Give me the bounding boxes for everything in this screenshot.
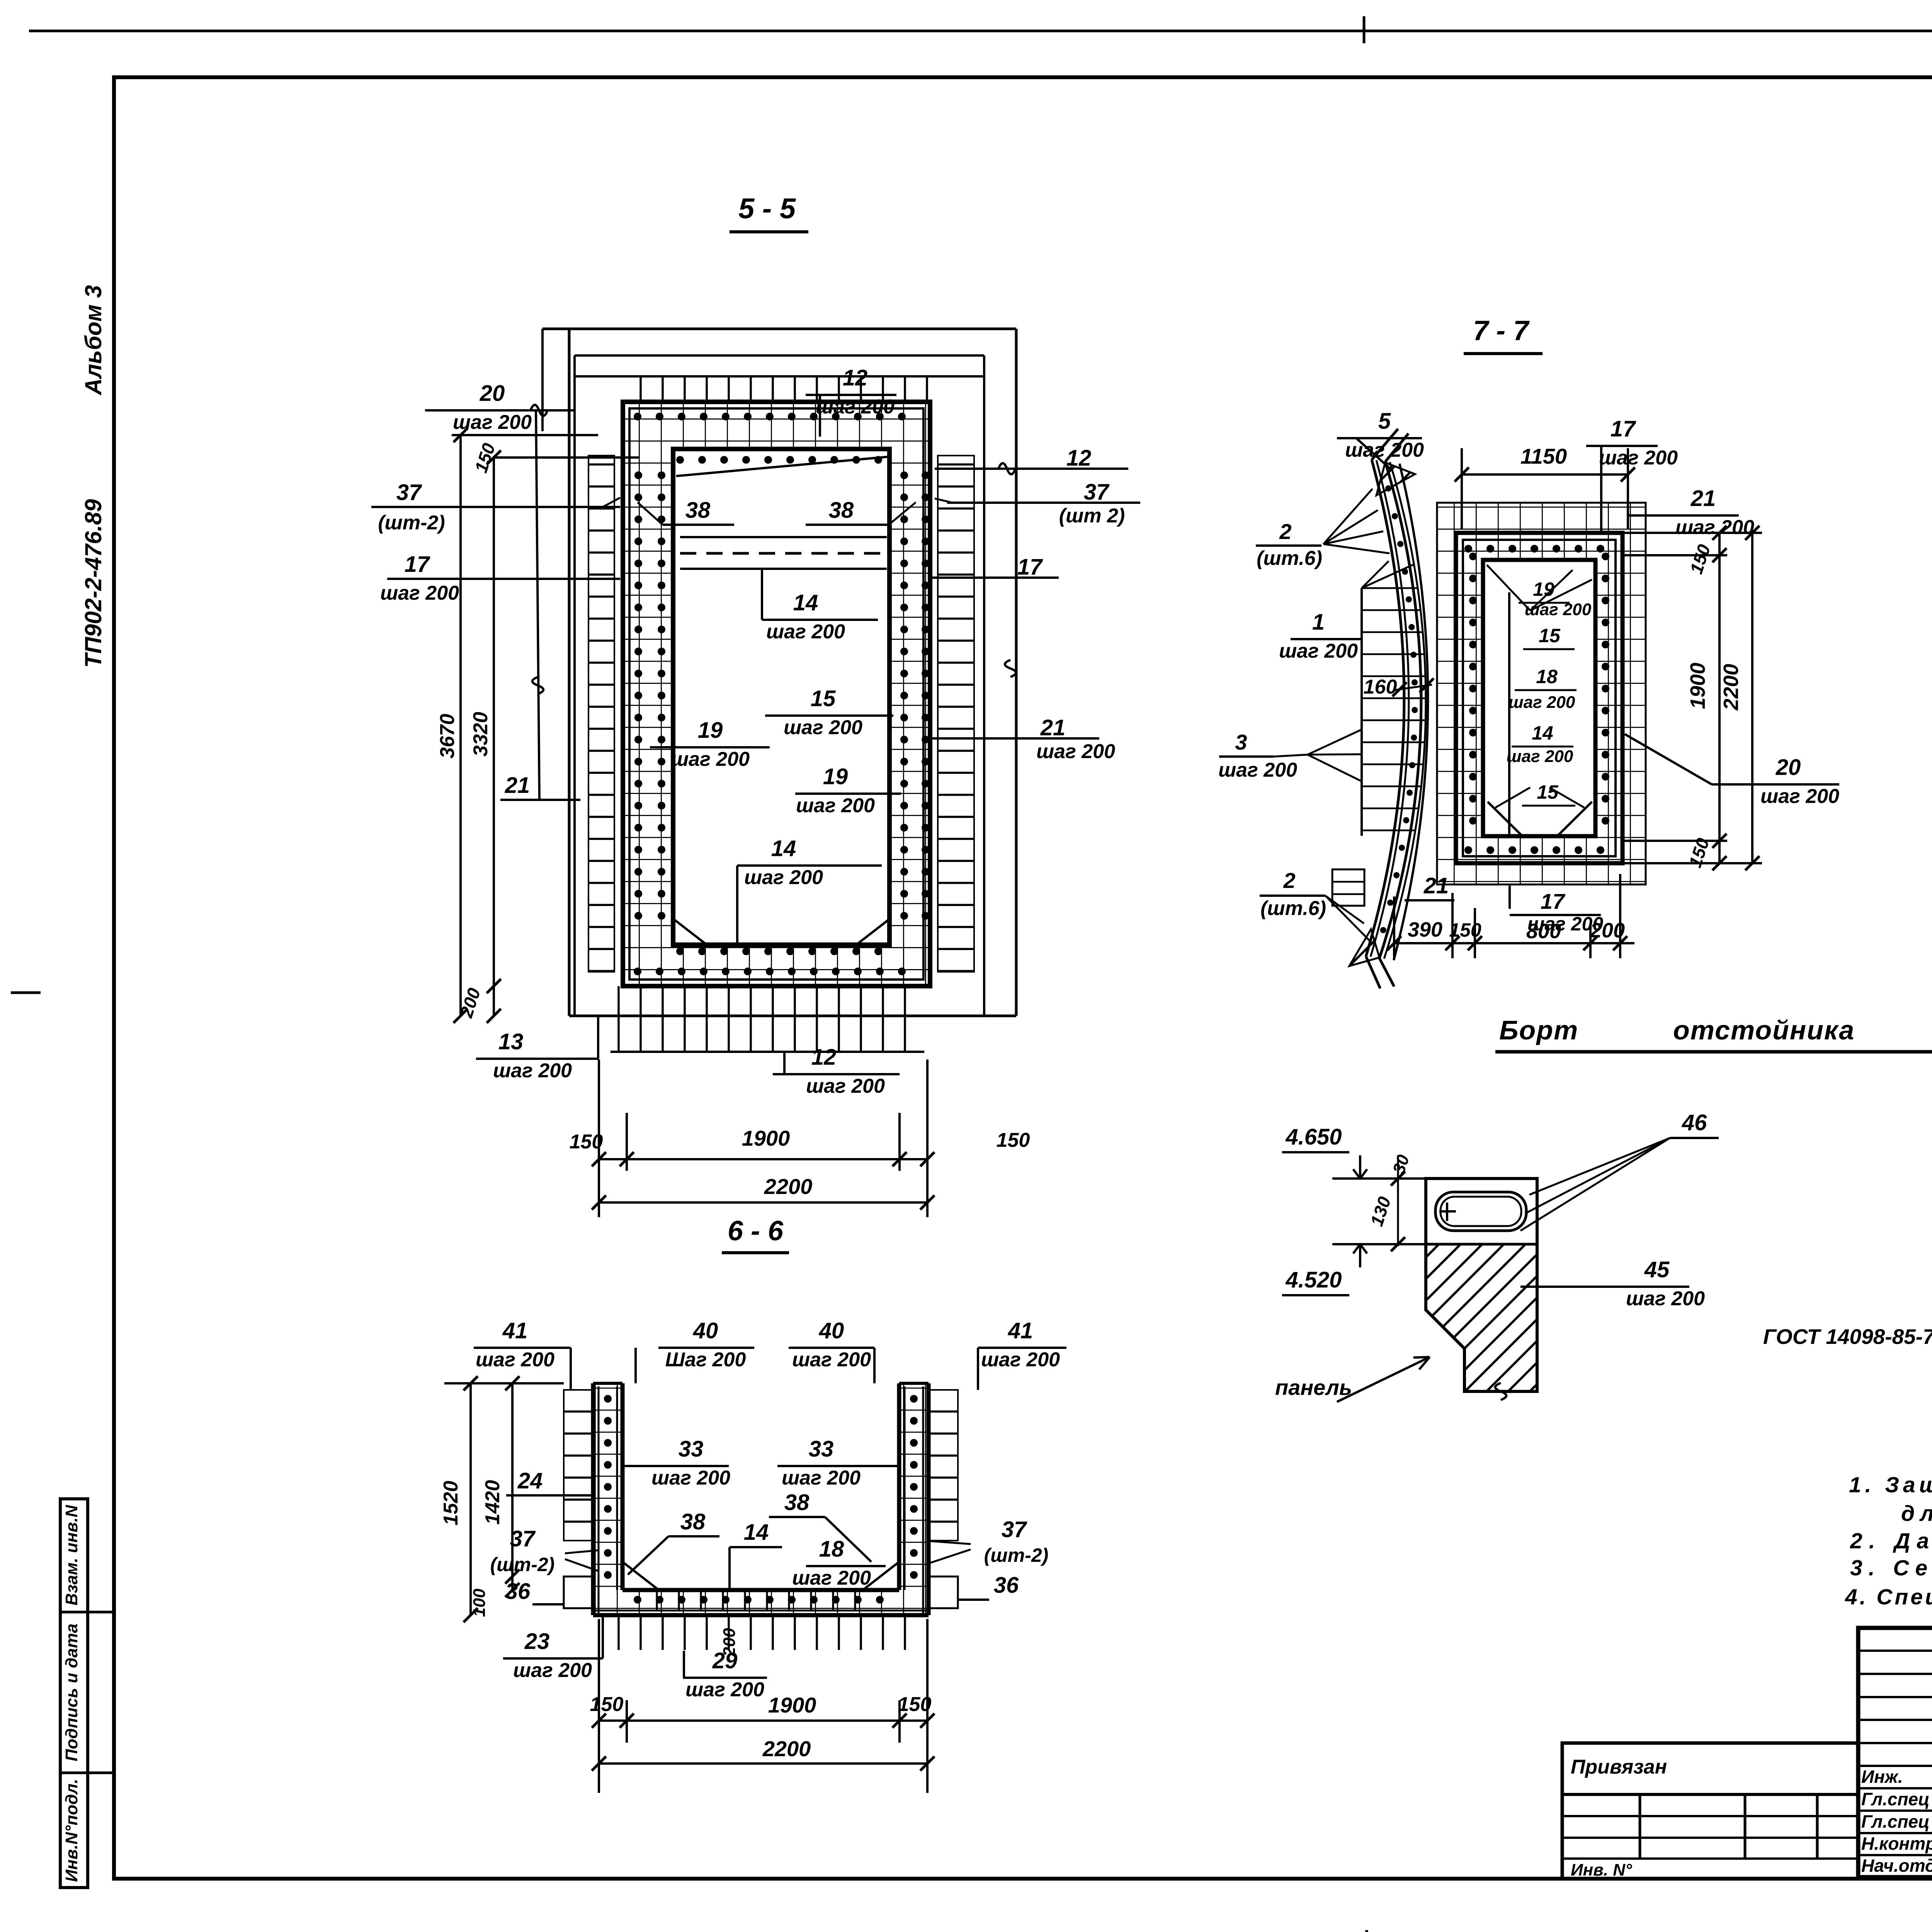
svg-text:23: 23 xyxy=(524,1629,550,1654)
svg-text:21: 21 xyxy=(1423,873,1449,898)
svg-text:15: 15 xyxy=(1537,781,1559,803)
svg-text:шаг 200: шаг 200 xyxy=(782,1467,861,1489)
svg-text:17: 17 xyxy=(1017,554,1043,580)
svg-text:шаг 200: шаг 200 xyxy=(796,794,875,817)
svg-text:12: 12 xyxy=(811,1045,837,1070)
svg-text:Подпись и дата: Подпись и дата xyxy=(62,1624,81,1762)
svg-text:38: 38 xyxy=(829,498,854,523)
svg-text:33: 33 xyxy=(809,1437,834,1462)
svg-text:панель: панель xyxy=(1275,1375,1352,1400)
svg-text:Взам. инв.N: Взам. инв.N xyxy=(62,1505,81,1605)
svg-text:2200: 2200 xyxy=(764,1174,813,1199)
svg-text:шаг 200: шаг 200 xyxy=(476,1349,554,1371)
svg-text:33: 33 xyxy=(679,1437,704,1462)
svg-text:17: 17 xyxy=(1611,417,1636,442)
svg-text:2: 2 xyxy=(1279,519,1291,544)
svg-text:1: 1 xyxy=(1312,610,1325,635)
svg-text:Нач.отд: Нач.отд xyxy=(1861,1855,1932,1876)
svg-text:шаг 200: шаг 200 xyxy=(685,1679,764,1701)
svg-text:45: 45 xyxy=(1644,1257,1670,1282)
svg-text:для прочей арматуры — 20 мм.: для прочей арматуры — 20 мм. xyxy=(1901,1501,1932,1526)
svg-text:2200: 2200 xyxy=(1719,664,1743,711)
svg-text:15: 15 xyxy=(1539,625,1561,646)
svg-text:шаг 200: шаг 200 xyxy=(744,866,823,889)
svg-text:Инв.N°подл.: Инв.N°подл. xyxy=(62,1779,81,1882)
svg-text:46: 46 xyxy=(1682,1110,1707,1135)
svg-text:12: 12 xyxy=(843,366,868,391)
svg-text:(шт.6): (шт.6) xyxy=(1260,897,1326,920)
svg-text:13: 13 xyxy=(498,1029,524,1054)
svg-text:шаг 200: шаг 200 xyxy=(1509,693,1575,712)
svg-text:шаг 200: шаг 200 xyxy=(792,1349,871,1371)
svg-text:38: 38 xyxy=(784,1490,810,1515)
svg-text:24: 24 xyxy=(517,1468,543,1493)
svg-text:Привязан: Привязан xyxy=(1571,1756,1667,1778)
svg-text:шаг 200: шаг 200 xyxy=(816,396,895,418)
svg-text:Гл.спец: Гл.спец xyxy=(1861,1789,1930,1809)
svg-text:15: 15 xyxy=(811,686,836,711)
svg-text:40: 40 xyxy=(693,1318,718,1344)
svg-text:150: 150 xyxy=(1686,542,1714,576)
svg-text:5: 5 xyxy=(1378,409,1391,434)
svg-text:(шт-2): (шт-2) xyxy=(378,512,445,534)
svg-text:14: 14 xyxy=(793,590,818,616)
svg-text:1. Защитный слой бетона для ни: 1. Защитный слой бетона для нижней армат… xyxy=(1849,1473,1932,1497)
svg-text:38: 38 xyxy=(685,498,711,523)
svg-text:шаг 200: шаг 200 xyxy=(981,1349,1060,1371)
svg-text:шаг 200: шаг 200 xyxy=(1345,439,1424,461)
svg-text:41: 41 xyxy=(502,1318,528,1344)
svg-text:17: 17 xyxy=(1541,889,1566,913)
svg-text:19: 19 xyxy=(1533,578,1554,600)
svg-text:шаг 200: шаг 200 xyxy=(1279,640,1358,662)
svg-text:2200: 2200 xyxy=(762,1736,811,1761)
svg-text:3. Сечения снесены с листа 13.: 3. Сечения снесены с листа 13. xyxy=(1850,1556,1932,1580)
svg-text:шаг 200: шаг 200 xyxy=(766,621,845,643)
svg-text:36: 36 xyxy=(994,1573,1019,1598)
svg-text:3670: 3670 xyxy=(436,714,459,759)
svg-text:шаг 200: шаг 200 xyxy=(671,748,750,770)
svg-text:18: 18 xyxy=(819,1537,844,1562)
svg-text:1420: 1420 xyxy=(481,1480,504,1525)
svg-text:отстойника: отстойника xyxy=(1673,1015,1855,1045)
svg-text:21: 21 xyxy=(1040,715,1066,740)
svg-text:41: 41 xyxy=(1008,1318,1033,1344)
svg-text:1900: 1900 xyxy=(742,1126,790,1150)
svg-text:20: 20 xyxy=(480,381,505,406)
svg-text:37: 37 xyxy=(510,1526,536,1551)
svg-text:(шт-2): (шт-2) xyxy=(490,1554,555,1575)
svg-text:100: 100 xyxy=(470,1588,489,1617)
svg-text:шаг 200: шаг 200 xyxy=(493,1060,572,1082)
svg-text:4.520: 4.520 xyxy=(1285,1267,1342,1293)
svg-text:30: 30 xyxy=(1389,1152,1413,1176)
svg-text:200: 200 xyxy=(1590,919,1625,942)
svg-text:1900: 1900 xyxy=(1686,663,1709,709)
svg-text:Инв. N°: Инв. N° xyxy=(1571,1861,1632,1879)
svg-text:19: 19 xyxy=(698,718,723,743)
svg-text:20: 20 xyxy=(1776,755,1801,780)
svg-text:шаг 200: шаг 200 xyxy=(784,716,862,739)
svg-text:шаг 200: шаг 200 xyxy=(1218,759,1297,781)
svg-text:14: 14 xyxy=(744,1520,769,1545)
svg-text:130: 130 xyxy=(1366,1194,1395,1228)
svg-text:3: 3 xyxy=(1235,730,1247,754)
svg-text:(шт 2): (шт 2) xyxy=(1059,505,1125,527)
svg-text:Альбом 3: Альбом 3 xyxy=(80,285,106,396)
svg-text:Инж.: Инж. xyxy=(1861,1767,1903,1787)
svg-text:17: 17 xyxy=(405,552,430,577)
svg-text:160: 160 xyxy=(1364,676,1397,698)
svg-text:150: 150 xyxy=(570,1131,603,1153)
svg-text:Шаг 200: Шаг 200 xyxy=(665,1349,746,1371)
svg-text:21: 21 xyxy=(1690,486,1716,511)
svg-text:Борт: Борт xyxy=(1499,1015,1578,1045)
svg-text:(шт.6): (шт.6) xyxy=(1257,547,1322,570)
svg-text:шаг 200: шаг 200 xyxy=(513,1659,592,1682)
svg-text:5 - 5: 5 - 5 xyxy=(738,192,796,224)
svg-text:2: 2 xyxy=(1283,868,1295,893)
svg-text:3320: 3320 xyxy=(469,712,492,757)
svg-text:шаг 200: шаг 200 xyxy=(651,1467,730,1489)
svg-text:шаг 200: шаг 200 xyxy=(1036,740,1115,763)
svg-text:40: 40 xyxy=(819,1318,844,1344)
svg-text:ГОСТ 14098-85-77-Ко: ГОСТ 14098-85-77-Ко xyxy=(1763,1325,1932,1349)
svg-text:150: 150 xyxy=(898,1693,932,1716)
svg-text:шаг 200: шаг 200 xyxy=(1675,516,1754,539)
svg-text:1900: 1900 xyxy=(768,1693,816,1717)
svg-text:18: 18 xyxy=(1536,666,1558,687)
svg-text:150: 150 xyxy=(1449,919,1481,941)
svg-text:800: 800 xyxy=(1526,920,1561,943)
svg-text:150: 150 xyxy=(997,1129,1030,1151)
svg-text:6 - 6: 6 - 6 xyxy=(728,1216,784,1247)
svg-text:шаг 200: шаг 200 xyxy=(1525,600,1592,619)
svg-text:14: 14 xyxy=(1532,722,1553,744)
svg-text:1520: 1520 xyxy=(440,1481,462,1526)
svg-text:4.650: 4.650 xyxy=(1285,1124,1342,1150)
svg-text:шаг 200: шаг 200 xyxy=(792,1567,871,1589)
svg-text:19: 19 xyxy=(823,764,848,789)
svg-text:шаг 200: шаг 200 xyxy=(806,1075,885,1097)
svg-text:37: 37 xyxy=(1084,480,1110,505)
svg-text:150: 150 xyxy=(590,1693,624,1716)
svg-text:7 - 7: 7 - 7 xyxy=(1473,315,1530,346)
svg-text:37: 37 xyxy=(396,480,422,505)
svg-text:12: 12 xyxy=(1066,446,1092,471)
svg-text:шаг 200: шаг 200 xyxy=(380,582,459,604)
svg-text:38: 38 xyxy=(680,1509,706,1534)
svg-text:1150: 1150 xyxy=(1520,444,1567,468)
svg-text:21: 21 xyxy=(505,773,530,798)
svg-text:шаг 200: шаг 200 xyxy=(1760,785,1839,808)
svg-text:ТП902-2-476.89: ТП902-2-476.89 xyxy=(80,499,106,668)
svg-text:200: 200 xyxy=(720,1628,739,1657)
svg-text:2. Данный лист читать совмест: 2. Данный лист читать совместно с листом… xyxy=(1850,1529,1932,1553)
svg-text:шаг 200: шаг 200 xyxy=(1599,447,1678,469)
svg-text:37: 37 xyxy=(1002,1517,1027,1542)
svg-text:390: 390 xyxy=(1408,918,1442,941)
svg-text:4. Спецификацию арматуры смотр: 4. Спецификацию арматуры смотри лист КЖ-… xyxy=(1845,1585,1932,1609)
svg-text:Н.контр: Н.контр xyxy=(1861,1833,1932,1854)
svg-text:шаг 200: шаг 200 xyxy=(1626,1287,1705,1310)
svg-text:14: 14 xyxy=(771,836,796,861)
svg-text:шаг 200: шаг 200 xyxy=(1507,747,1573,766)
svg-text:Гл.спец: Гл.спец xyxy=(1861,1811,1930,1832)
svg-text:(шт-2): (шт-2) xyxy=(984,1544,1049,1566)
